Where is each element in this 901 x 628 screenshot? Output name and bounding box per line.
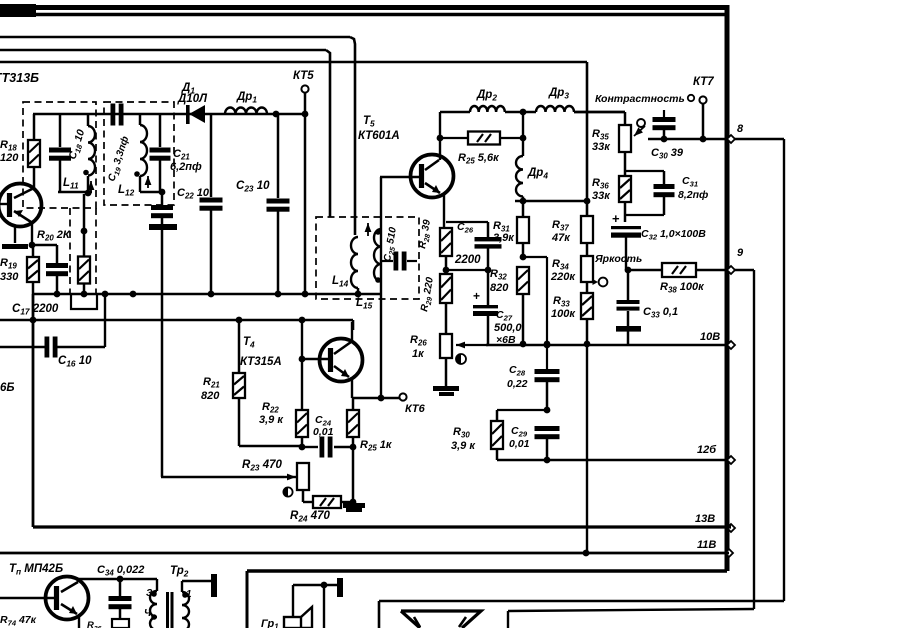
svg-text:R25​ 5,6к: R25​ 5,6к [458, 152, 500, 166]
svg-text:С30​ 39: С30​ 39 [651, 147, 684, 161]
svg-text:3,9к: 3,9к [493, 232, 515, 244]
svg-text:ГТ313Б: ГТ313Б [0, 71, 39, 85]
svg-text:×6В: ×6В [496, 334, 516, 346]
svg-text:КТ601А: КТ601А [358, 130, 400, 142]
svg-text:12б: 12б [697, 444, 717, 456]
svg-text:220к: 220к [550, 271, 576, 283]
svg-text:120: 120 [0, 152, 19, 164]
svg-text:КТ6: КТ6 [405, 403, 426, 415]
svg-text:R38​ 100к: R38​ 100к [660, 281, 705, 295]
svg-text:47к: 47к [551, 232, 571, 244]
svg-text:С33​ 0,1: С33​ 0,1 [643, 306, 678, 320]
svg-text:+: + [612, 211, 620, 226]
svg-text:R20​ 2К: R20​ 2К [37, 229, 71, 243]
svg-text:Д10Л: Д10Л [177, 93, 208, 105]
svg-text:R24​ 470: R24​ 470 [290, 510, 331, 524]
svg-text:500,0: 500,0 [494, 322, 522, 334]
svg-text:0,01: 0,01 [509, 438, 530, 450]
svg-text:6,2пф: 6,2пф [170, 161, 202, 173]
svg-text:330: 330 [0, 271, 19, 283]
svg-text:0,22: 0,22 [507, 378, 528, 390]
svg-text:КТ5: КТ5 [293, 70, 314, 82]
svg-text:КТ315А: КТ315А [240, 356, 282, 368]
svg-text:R23​ 470: R23​ 470 [242, 459, 283, 473]
svg-text:Контрастность: Контрастность [595, 93, 685, 105]
svg-text:9: 9 [737, 247, 744, 259]
svg-text:100к: 100к [551, 308, 576, 320]
svg-text:С34​ 0,022: С34​ 0,022 [97, 564, 144, 578]
svg-text:Ч: Ч [144, 608, 152, 619]
svg-text:КТ7: КТ7 [693, 76, 714, 88]
svg-text:З: З [146, 588, 153, 599]
svg-text:С16​ 10: С16​ 10 [58, 355, 92, 369]
svg-text:820: 820 [490, 282, 509, 294]
svg-text:820: 820 [201, 390, 220, 402]
svg-text:3,9 к: 3,9 к [451, 440, 476, 452]
svg-text:11В: 11В [697, 539, 716, 551]
svg-text:С22​ 10: С22​ 10 [177, 187, 210, 201]
svg-text:1к: 1к [412, 348, 425, 360]
svg-text:33к: 33к [592, 190, 611, 202]
svg-text:+: + [473, 289, 480, 303]
svg-text:2200: 2200 [454, 254, 481, 266]
svg-text:1: 1 [186, 589, 192, 600]
svg-text:8,2пф: 8,2пф [678, 189, 708, 201]
svg-text:С23​ 10: С23​ 10 [236, 180, 270, 194]
svg-text:R25​ 1к: R25​ 1к [360, 439, 393, 453]
svg-text:6Б: 6Б [0, 382, 15, 394]
svg-text:0,01: 0,01 [313, 426, 334, 438]
svg-text:3,9 к: 3,9 к [259, 414, 284, 426]
svg-text:13В: 13В [695, 513, 715, 525]
svg-text:10В: 10В [700, 331, 720, 343]
svg-text:Яркость: Яркость [594, 253, 642, 265]
svg-text:33к: 33к [592, 141, 611, 153]
svg-text:С17​ 2200: С17​ 2200 [12, 303, 59, 317]
svg-text:R74​ 47к: R74​ 47к [0, 614, 37, 628]
svg-text:8: 8 [737, 123, 744, 135]
